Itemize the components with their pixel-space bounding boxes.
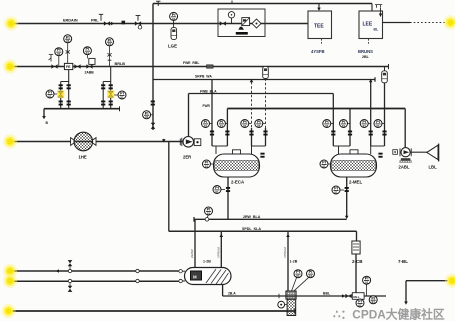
svg-text:2-ECA: 2-ECA: [231, 180, 245, 185]
vent tick top-left: [156, 1, 161, 6]
regulator square in box: [242, 18, 250, 26]
node: bottom right: [445, 274, 455, 288]
pump 2ABL: [400, 148, 411, 156]
vent with node on line 4: [68, 269, 71, 272]
instrument bubble with actuator: [64, 34, 72, 43]
JL vents above box2: [375, 5, 382, 8]
wire: drop x221.3 from line B: [220, 231, 222, 267]
regulator station box: [218, 9, 265, 37]
wire: vertical main x153: [152, 4, 154, 131]
svg-text:LGE: LGE: [168, 44, 177, 49]
junction box MLL on line: [352, 293, 364, 300]
valve marks vessel1 right shoulder: [260, 153, 264, 158]
svg-text:2BL: 2BL: [362, 55, 370, 59]
wire: drop x265.5 with pot: [265, 67, 267, 70]
wire: right manifold: [103, 67, 111, 109]
wire: pump outlet drop: [222, 285, 224, 297]
wire: drain drop with arrow: [43, 109, 45, 117]
svg-text:∴：CPDA大健康社区: ∴：CPDA大健康社区: [333, 308, 445, 321]
flow arrow on line 4: [56, 269, 59, 273]
instrument bubble on drop: [213, 185, 221, 194]
wire: nozzle merges vessel1: [212, 146, 266, 154]
diamond element in box: [252, 19, 261, 28]
svg-text:PRL: PRL: [91, 18, 99, 22]
tee tick on line 3: [163, 139, 165, 142]
svg-text:B: B: [46, 121, 49, 125]
wire: vessel2 bottom drop with arrow: [346, 177, 348, 216]
wire: top header line: [153, 3, 372, 5]
pump 2ER: [180, 138, 182, 146]
wire: line 4 y=271: [12, 270, 179, 272]
wire: right header y=108.5: [227, 108, 405, 110]
node: line4 left: [3, 264, 17, 278]
node: line3 left: [3, 134, 17, 148]
heat exchanger 1HE: [71, 138, 75, 146]
wire: drop x333.3: [332, 94, 334, 147]
wire: header corner drop to pump: [404, 109, 406, 148]
svg-text:2ER: 2ER: [183, 155, 191, 160]
wire: line 1 exit to right edge: [383, 22, 411, 24]
sample cylinder LGE: [171, 27, 177, 39]
wire: drop x370.7 from line79: [370, 80, 372, 147]
instrument bubbles below line: [356, 299, 364, 308]
wire: pump discharge up to line y=93.8: [188, 94, 190, 137]
wire: drop x384.5 with pot: [384, 67, 386, 72]
svg-text:FWE RBL: FWE RBL: [183, 61, 199, 65]
wire: left header: [44, 108, 120, 110]
wire: drop x350 from header: [349, 109, 351, 147]
valves on vessel1 risers: [210, 131, 214, 136]
wire: line 5 y=281: [12, 280, 179, 282]
wire: drop x406 with arrow: [405, 281, 407, 302]
instrument bubble right: [118, 91, 126, 100]
valve marks vessel2 right shoulder: [378, 153, 382, 158]
instrument bubble above line A: [205, 207, 213, 216]
flow element FE box on line 2: [64, 63, 72, 69]
seat mark in box: [238, 27, 244, 30]
strainer stack: [286, 291, 296, 299]
svg-text:M: M: [193, 274, 197, 279]
black bar in box: [236, 32, 248, 35]
instrument bubble vessel1 left: [203, 160, 211, 169]
wire: main line 2: [12, 66, 389, 68]
wire: drop from FE: [61, 70, 69, 109]
vessel 2-ECA: [233, 150, 241, 155]
svg-text:BBL: BBL: [323, 292, 330, 296]
pressure gauge in box: [228, 12, 234, 18]
svg-text:1HE: 1HE: [79, 155, 87, 160]
vent with node on line 5: [68, 279, 71, 282]
suction flanges: [179, 270, 182, 273]
instrument bubble left: [46, 90, 54, 99]
svg-text:2RW BLA: 2RW BLA: [243, 215, 261, 219]
instrument bubble on line 2: [55, 47, 63, 56]
svg-text:VPRUM: VPRUM: [283, 247, 287, 258]
valve inside box: [220, 21, 226, 26]
valve on drop: [226, 187, 230, 192]
vent symbol on line 1: [99, 14, 103, 20]
yellow valve left: [57, 90, 64, 98]
valve on line 2: [51, 64, 57, 69]
svg-text:4YSFB: 4YSFB: [311, 49, 325, 54]
wire: nozzle merges vessel2: [333, 146, 384, 154]
svg-text:2ABL: 2ABL: [399, 165, 410, 170]
flow arrow + valve on line: [342, 294, 345, 298]
svg-text:BRLB: BRLB: [115, 62, 126, 66]
instrument bubble on vertical: [143, 110, 151, 119]
svg-text:VPRUM: VPRUM: [217, 247, 221, 258]
svg-text:BRUNS: BRUNS: [358, 49, 373, 54]
node: line6 left: [1, 304, 15, 318]
valve after FE: [74, 64, 80, 69]
wire: right inlet y=280.7: [406, 280, 448, 282]
svg-text:1-2B: 1-2B: [290, 260, 298, 264]
valves upper pair: [59, 84, 63, 89]
svg-text:7-BL: 7-BL: [398, 259, 408, 264]
svg-text:1-2B: 1-2B: [203, 260, 211, 264]
vent tick top-mid: [231, 1, 233, 4]
node: line1 left: [4, 16, 18, 30]
valve V1 on line 1: [104, 21, 110, 26]
tag square on line 1: [122, 21, 126, 25]
inline element on line 2: [207, 65, 214, 68]
valve 2ABB on line 2: [86, 64, 92, 69]
svg-text:LEE: LEE: [363, 21, 373, 27]
wire: drop x227.4 from header: [226, 109, 228, 147]
valves lower pair: [59, 101, 63, 106]
svg-text:2B.A: 2B.A: [228, 292, 236, 296]
wire: main line 1 (y=23.5): [12, 23, 308, 25]
wire: drop x212 from line79: [211, 80, 213, 147]
wire: vessel1 bottom drop: [227, 177, 229, 219]
wire: drop into unit E-2 (box2): [371, 4, 373, 12]
instrument bubble LG above line 1: [170, 12, 178, 21]
instrument bubble vessel2 left: [320, 160, 328, 169]
svg-text:FE: FE: [66, 65, 71, 69]
wire: main line 3: [12, 141, 183, 143]
wire: pump discharge to funnel: [410, 151, 427, 153]
wire: drop x195 from line A: [194, 219, 196, 267]
vent symbol left: [49, 55, 54, 62]
node circle on line A: [205, 218, 209, 222]
instrument bubble with seal pot: [83, 46, 91, 55]
svg-text:ERDAIN: ERDAIN: [63, 18, 78, 22]
wire: drop into unit E-1 (box1) with arrow: [318, 4, 320, 9]
valve on vertical: [151, 123, 156, 129]
unit box E-1 (TEE): [308, 11, 332, 39]
svg-text:2-MEL: 2-MEL: [349, 180, 362, 185]
instrument bubble PI large: [363, 276, 371, 285]
wire: line B corner down through filter 2-CB: [355, 231, 358, 292]
wire: dashed signal drop x251.5: [250, 79, 254, 82]
filter 2-CB: [352, 241, 360, 254]
funnel LBL: [427, 145, 438, 159]
svg-text:TEE: TEE: [314, 23, 324, 29]
instrument bubble right: [106, 37, 114, 46]
hand valve V2 on line 1: [135, 21, 141, 26]
node: line1 right: [443, 15, 455, 29]
instrument bubbles above strainer: [294, 269, 302, 278]
wire: line 6 y=311: [12, 309, 296, 314]
vacuum pump body: [185, 268, 232, 285]
svg-text:FWB BLA: FWB BLA: [200, 89, 217, 93]
yellow valve right: [107, 90, 114, 98]
svg-text:LBL: LBL: [429, 165, 438, 170]
svg-text:2ERW: 2ERW: [190, 249, 194, 258]
wire: riser from line3 corner down to line B: [168, 142, 170, 232]
flow arrow line 1: [111, 22, 114, 26]
node circles mid: [136, 269, 139, 272]
svg-text:SPDL KLA: SPDL KLA: [242, 227, 261, 231]
wire: drop x288 from line B to strainer: [287, 231, 289, 291]
wire: bottom line y=296: [223, 295, 386, 297]
unit box E-2 (LEE): [359, 11, 383, 39]
svg-text:BL: BL: [374, 28, 379, 32]
svg-text:2-CB: 2-CB: [352, 259, 363, 264]
wire: line B y=231.3: [169, 230, 357, 232]
valves on vessel2 risers: [331, 131, 335, 136]
svg-text:SRPB WA: SRPB WA: [195, 75, 212, 79]
small pump beside strainer: [278, 301, 285, 308]
wire: line y=79: [153, 77, 375, 82]
vessel 2-MEL: [350, 150, 358, 155]
node: line5 left: [3, 274, 17, 288]
wire: line A y=219.3: [194, 217, 347, 222]
svg-text:2ABB: 2ABB: [85, 71, 95, 75]
instrument bubbles row vessel2: [323, 119, 331, 128]
svg-text:FWR: FWR: [203, 104, 211, 108]
node: line2 left: [3, 59, 17, 73]
seal pot square left of pump: [393, 150, 398, 155]
wire: line y=93.8: [189, 93, 334, 95]
instrument bubbles row vessel1: [202, 119, 210, 128]
instrument bubble on drop 2: [332, 186, 340, 195]
